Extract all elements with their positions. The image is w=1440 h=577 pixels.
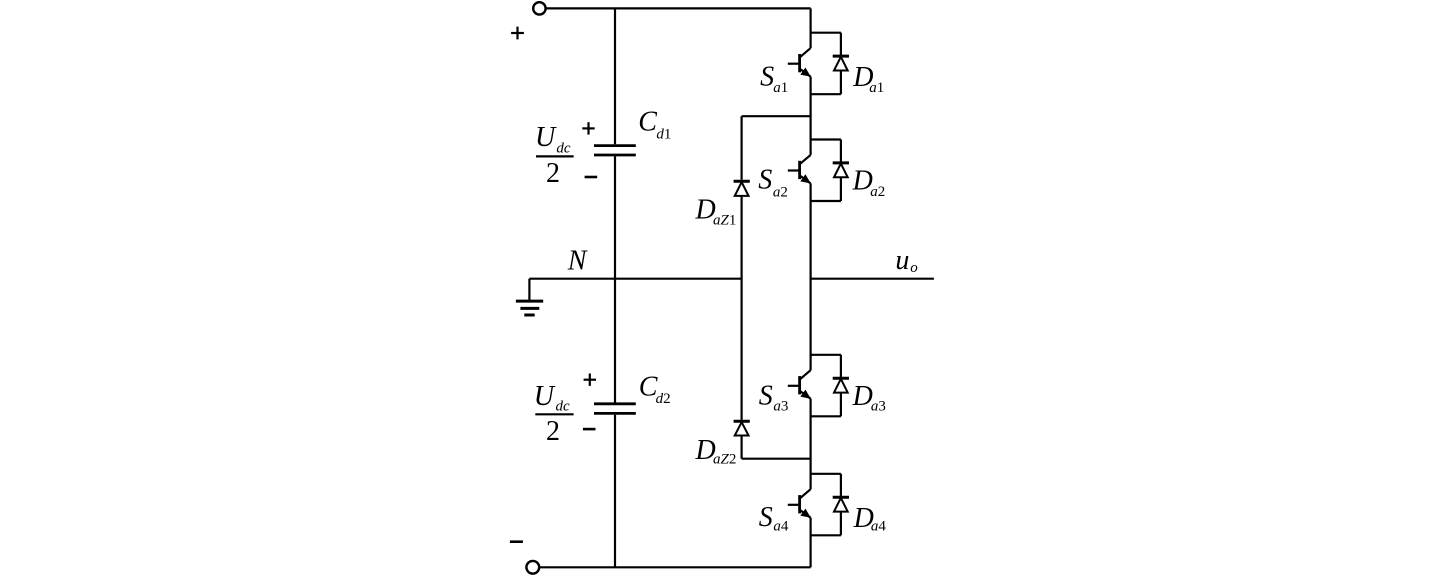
label Da1 xyxy=(852,62,884,96)
wire: top DC rail xyxy=(546,7,811,9)
wire: clamp branch middle vertical xyxy=(740,196,742,420)
wire: loop top of stage 2 xyxy=(811,138,841,140)
label Udc/2 (lower source) xyxy=(534,381,574,447)
terminal + (top-left DC bus terminal) xyxy=(533,2,545,14)
label Sa2 xyxy=(758,164,788,200)
wire: loop bottom of stage 1 xyxy=(811,93,841,95)
svg-text:o: o xyxy=(910,260,918,276)
wire: clamp branch top (to leg between Sa1/Sa2) xyxy=(742,115,811,117)
svg-text:2: 2 xyxy=(546,158,560,189)
wire: main leg segment bottom xyxy=(809,518,811,568)
wire: main leg segment Sa3-Sa4 xyxy=(809,399,811,490)
wire: loop bottom of stage 2 xyxy=(811,200,841,202)
+ polarity label top-left xyxy=(511,27,524,40)
wire: clamp branch upper vertical xyxy=(740,116,742,180)
svg-text:U: U xyxy=(534,381,556,412)
svg-text:S: S xyxy=(759,502,773,533)
IGBT switch Sa3 xyxy=(788,370,811,399)
label DaZ2 xyxy=(695,435,737,467)
IGBT switch Sa2 xyxy=(788,155,811,184)
label Sa4 xyxy=(759,502,789,535)
svg-text:aZ1: aZ1 xyxy=(713,213,736,229)
wire: loop top of stage 4 xyxy=(811,473,841,475)
clamp diode DaZ2 xyxy=(734,421,750,435)
svg-text:2: 2 xyxy=(546,416,560,447)
label DaZ1 xyxy=(695,195,737,229)
wire: loop bottom of stage 4 xyxy=(811,534,841,536)
label Da2 xyxy=(852,165,886,200)
wire: capacitor branch middle segment xyxy=(614,156,616,402)
label Da4 xyxy=(853,503,887,535)
wire: loop top of stage 1 xyxy=(811,32,841,34)
svg-text:a3: a3 xyxy=(773,399,788,415)
svg-text:S: S xyxy=(759,380,773,411)
svg-text:a2: a2 xyxy=(773,185,788,201)
label Sa3 xyxy=(759,380,789,414)
wire: neutral N to clamp branch xyxy=(529,278,741,280)
+ label of Cd1 xyxy=(582,122,594,134)
svg-text:N: N xyxy=(567,246,588,277)
wire: capacitor branch upper segment xyxy=(614,8,616,144)
IGBT switch Sa1 xyxy=(788,48,811,77)
terminal - (bottom-left DC bus terminal) xyxy=(526,561,539,574)
svg-text:a1: a1 xyxy=(773,80,788,96)
label uo (output voltage) xyxy=(895,245,918,276)
svg-text:S: S xyxy=(758,164,772,195)
wire: output uo xyxy=(811,278,934,280)
wire: main leg segment Sa1-Sa2 xyxy=(809,77,811,155)
svg-text:a2: a2 xyxy=(870,184,885,200)
wire: loop bottom of stage 3 xyxy=(811,415,841,417)
svg-text:a4: a4 xyxy=(871,519,887,535)
svg-text:C: C xyxy=(638,107,657,138)
svg-text:aZ2: aZ2 xyxy=(713,451,736,467)
label Cd2 xyxy=(639,371,671,407)
svg-text:dc: dc xyxy=(556,141,571,157)
svg-text:a1: a1 xyxy=(869,80,884,96)
svg-text:u: u xyxy=(895,245,909,276)
svg-text:a4: a4 xyxy=(773,519,789,535)
svg-text:a3: a3 xyxy=(871,399,886,415)
wire: clamp branch bottom (to leg between Sa3/Sa4) xyxy=(742,458,811,460)
freewheel diode Da2 xyxy=(833,140,849,202)
freewheel diode Da1 xyxy=(833,33,849,94)
- polarity label bottom-left xyxy=(510,540,523,543)
svg-text:D: D xyxy=(852,381,873,412)
wire: loop top of stage 3 xyxy=(811,354,841,356)
label Cd1 xyxy=(638,107,671,143)
ground xyxy=(516,279,543,315)
label Sa1 xyxy=(760,62,788,97)
wire: bottom DC rail xyxy=(539,566,810,568)
clamp diode DaZ1 xyxy=(734,181,750,196)
svg-text:d1: d1 xyxy=(656,126,671,142)
- label of Cd1 xyxy=(585,176,598,179)
svg-text:U: U xyxy=(535,122,557,153)
svg-text:d2: d2 xyxy=(656,391,671,407)
+ label of Cd2 xyxy=(584,374,596,386)
capacitor Cd1 xyxy=(594,146,636,155)
wire: capacitor branch lower segment xyxy=(614,415,616,568)
wire: main leg segment top xyxy=(809,8,811,48)
wire: main leg segment Sa2-Sa3 (output node) xyxy=(809,183,811,370)
freewheel diode Da4 xyxy=(833,474,849,536)
capacitor Cd2 xyxy=(594,404,636,414)
freewheel diode Da3 xyxy=(833,355,849,417)
label Udc/2 (upper source) xyxy=(535,122,574,189)
svg-text:dc: dc xyxy=(556,399,571,415)
wire: clamp branch lower vertical xyxy=(740,436,742,459)
- label of Cd2 xyxy=(583,428,596,431)
IGBT switch Sa4 xyxy=(788,489,811,518)
label Da3 xyxy=(852,381,886,415)
svg-text:S: S xyxy=(760,62,774,93)
